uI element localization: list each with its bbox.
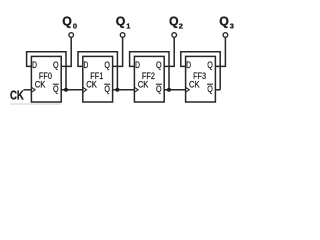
svg-text:Q: Q xyxy=(62,15,72,29)
svg-text:Q: Q xyxy=(219,15,229,29)
D flip-flop FF2 xyxy=(134,56,164,102)
feedback wire Qbar to D xyxy=(181,52,220,90)
svg-text:0: 0 xyxy=(73,22,77,31)
D flip-flop FF1 xyxy=(83,56,113,102)
svg-text:D: D xyxy=(135,60,140,70)
wire Q to terminal Q2 xyxy=(164,37,174,66)
svg-text:Q: Q xyxy=(207,84,213,94)
wire to next stage CK xyxy=(66,89,83,91)
svg-text:Q: Q xyxy=(53,60,59,70)
wire to next stage CK xyxy=(117,89,134,91)
faint shadow line under FF0 xyxy=(10,103,61,105)
feedback wire Qbar to D xyxy=(27,52,66,90)
svg-text:CK: CK xyxy=(35,80,46,90)
svg-text:CK: CK xyxy=(189,80,200,90)
junction dot xyxy=(64,88,68,92)
wire to next stage CK xyxy=(169,89,186,91)
Qbar output stub xyxy=(164,89,169,91)
wire Q to terminal Q3 xyxy=(215,37,225,66)
svg-text:Q: Q xyxy=(53,84,59,94)
svg-text:CK: CK xyxy=(138,80,149,90)
Qbar output stub xyxy=(215,89,220,91)
junction dot xyxy=(115,88,119,92)
Qbar output stub xyxy=(61,89,66,91)
svg-text:Q: Q xyxy=(116,15,126,29)
svg-text:Q: Q xyxy=(207,60,213,70)
clock edge wedge xyxy=(186,87,190,92)
svg-text:CK: CK xyxy=(86,80,97,90)
terminal Q3 xyxy=(223,33,228,38)
clock edge wedge xyxy=(134,87,138,92)
svg-text:2: 2 xyxy=(179,22,183,31)
Qbar output stub xyxy=(113,89,118,91)
feedback wire Qbar to D xyxy=(130,52,169,90)
terminal Q0 xyxy=(69,33,74,38)
terminal Q2 xyxy=(172,33,177,38)
wire Q to terminal Q0 xyxy=(61,37,71,66)
D flip-flop FF0 xyxy=(31,56,61,102)
clock edge wedge xyxy=(31,87,35,92)
CK input wire xyxy=(24,89,32,91)
svg-text:Q: Q xyxy=(156,60,162,70)
svg-text:D: D xyxy=(186,60,191,70)
svg-text:D: D xyxy=(84,60,89,70)
D flip-flop FF3 xyxy=(186,56,216,102)
wire Q to terminal Q1 xyxy=(113,37,123,66)
terminal Q1 xyxy=(120,33,125,38)
svg-text:Q: Q xyxy=(104,84,110,94)
svg-text:1: 1 xyxy=(126,22,130,31)
svg-text:Q: Q xyxy=(156,84,162,94)
svg-text:3: 3 xyxy=(230,22,234,31)
svg-text:Q: Q xyxy=(104,60,110,70)
feedback wire Qbar to D xyxy=(78,52,117,90)
svg-text:D: D xyxy=(32,60,37,70)
clock edge wedge xyxy=(83,87,87,92)
junction dot xyxy=(167,88,171,92)
svg-text:Q: Q xyxy=(169,15,179,29)
svg-text:CK: CK xyxy=(10,87,24,102)
